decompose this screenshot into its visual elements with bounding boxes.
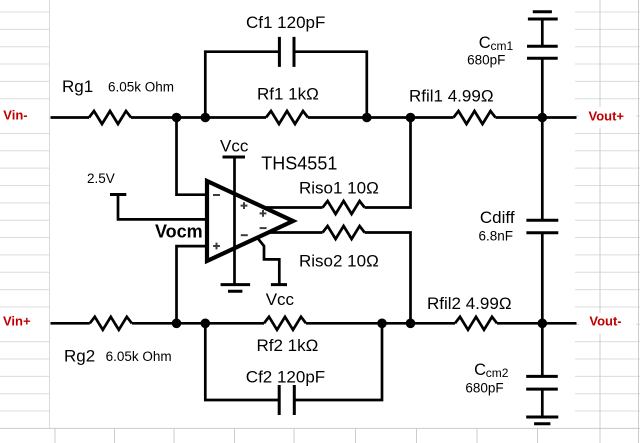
- resistor Riso2: [323, 226, 365, 239]
- wire Cf2 left leg: [205, 323, 279, 400]
- wire Cdiff to Vout- node and down to Ccm2: [541, 233, 544, 377]
- ground bottom right: [526, 417, 558, 424]
- wire Riso1 feedback up to node B: [365, 118, 411, 208]
- op-amp OUT+ polarity mark: [260, 210, 267, 217]
- svg-text:THS4551: THS4551: [261, 153, 337, 173]
- wire Rfil1 to Vout+: [496, 116, 577, 119]
- wire Vcc rail through op-amp to ground: [233, 157, 236, 285]
- svg-text:Riso1 10Ω: Riso1 10Ω: [299, 179, 379, 198]
- svg-text:Cdiff: Cdiff: [480, 208, 515, 227]
- svg-text:Rf1 1kΩ: Rf1 1kΩ: [257, 85, 319, 104]
- svg-text:6.8nF: 6.8nF: [479, 229, 514, 244]
- wire Vin+ input segment: [51, 322, 90, 325]
- wire node C (Rg2 to Rf2): [132, 322, 264, 325]
- svg-text:cm1: cm1: [491, 39, 514, 53]
- resistor Riso1: [323, 201, 365, 214]
- wire non-inverting input (node C up to op-amp IN+): [177, 246, 208, 323]
- resistor Rf2: [264, 317, 306, 330]
- supply Vcc top bar: [223, 156, 246, 159]
- svg-text:Vocm: Vocm: [155, 222, 203, 242]
- capacitor Cf2 plates: [279, 385, 294, 415]
- svg-text:6.05k Ohm: 6.05k Ohm: [106, 349, 172, 364]
- capacitor Ccm2 plates: [526, 376, 558, 389]
- resistor Rf1: [266, 111, 308, 124]
- junction Cf2 left dot: [201, 319, 211, 329]
- wire inverting input (node A down to op-amp IN-): [177, 118, 208, 195]
- wire Cf2 right leg: [294, 323, 382, 400]
- junction Riso1 feedback dot: [406, 113, 416, 123]
- svg-text:Vin+: Vin+: [3, 313, 31, 328]
- junction Cf1 left dot: [201, 113, 211, 123]
- wire ground to Ccm1: [541, 19, 544, 46]
- svg-text:Rg2: Rg2: [64, 347, 95, 366]
- svg-text:Vin-: Vin-: [3, 108, 27, 123]
- ground below op-amp: [221, 285, 251, 292]
- junction Vout+ dot: [538, 113, 548, 123]
- wire Riso2 feedback down to node D: [365, 233, 411, 324]
- op-amp IN+ pin mark: [213, 243, 220, 250]
- capacitor Cdiff plates: [526, 220, 558, 233]
- resistor Rfil2: [455, 317, 497, 330]
- wire node B (Rf1 to Rfil1): [308, 116, 454, 119]
- svg-text:Rg1: Rg1: [62, 77, 93, 96]
- svg-text:Rf2 1kΩ: Rf2 1kΩ: [257, 336, 319, 355]
- supply 2.5V bar: [110, 193, 126, 196]
- junction Riso2 feedback dot: [406, 319, 416, 329]
- wire Ccm2 to ground: [541, 389, 544, 417]
- op-amp U1 THS4551 triangle body: [207, 181, 293, 261]
- svg-text:Vout+: Vout+: [589, 108, 625, 123]
- svg-text:cm2: cm2: [486, 366, 509, 380]
- svg-text:6.05k Ohm: 6.05k Ohm: [108, 80, 174, 95]
- op-amp internal - mark lower: [241, 234, 248, 236]
- svg-text:680pF: 680pF: [465, 381, 503, 396]
- svg-text:Vout-: Vout-: [589, 314, 621, 329]
- svg-text:680pF: 680pF: [467, 53, 505, 68]
- junction node C dot: [172, 319, 182, 329]
- wire Vin- input segment: [51, 116, 90, 119]
- junction Vout- dot: [538, 319, 548, 329]
- svg-text:Vcc: Vcc: [220, 136, 249, 155]
- junction Cf2 right dot: [377, 319, 387, 329]
- wire 2.5V to Vocm pin: [118, 195, 207, 220]
- svg-text:Rfil1 4.99Ω: Rfil1 4.99Ω: [409, 87, 494, 106]
- resistor Rfil1: [454, 111, 496, 124]
- supply Vcc bottom bar: [271, 283, 287, 286]
- wire node A (Rg1 to Rf1): [131, 116, 266, 119]
- capacitor Cf1 plates: [279, 37, 294, 67]
- svg-text:C: C: [479, 34, 491, 52]
- capacitor Ccm1 plates: [527, 46, 558, 58]
- op-amp IN- pin mark: [213, 194, 220, 196]
- svg-text:C: C: [474, 361, 486, 379]
- svg-text:Cf2 120pF: Cf2 120pF: [246, 368, 325, 387]
- op-amp OUT- polarity mark: [260, 227, 267, 229]
- svg-text:Vcc: Vcc: [266, 290, 295, 309]
- op-amp internal + mark upper: [241, 202, 248, 209]
- wire Rfil2 to Vout-: [497, 322, 577, 325]
- wire op-amp OUT+ to Riso1: [264, 206, 323, 209]
- junction node B dot: [362, 113, 372, 123]
- resistor Rg2: [90, 317, 132, 330]
- ground top right (inverted): [528, 12, 558, 19]
- wire Cf1 left leg: [205, 52, 279, 118]
- svg-text:2.5V: 2.5V: [87, 171, 115, 186]
- wire Ccm1 to Vout+ node and down to Cdiff: [541, 58, 544, 220]
- svg-text:Rfil2 4.99Ω: Rfil2 4.99Ω: [427, 294, 512, 313]
- junction node A dot: [172, 113, 182, 123]
- wire negative supply step: [258, 238, 280, 284]
- resistor Rg1: [89, 111, 131, 124]
- wire node D (Rf2 to Rfil2): [306, 322, 455, 325]
- svg-text:Riso2 10Ω: Riso2 10Ω: [299, 251, 379, 270]
- svg-text:Cf1 120pF: Cf1 120pF: [246, 13, 325, 32]
- wire Cf1 right leg: [294, 52, 367, 118]
- wire op-amp OUT- to Riso2: [268, 231, 322, 234]
